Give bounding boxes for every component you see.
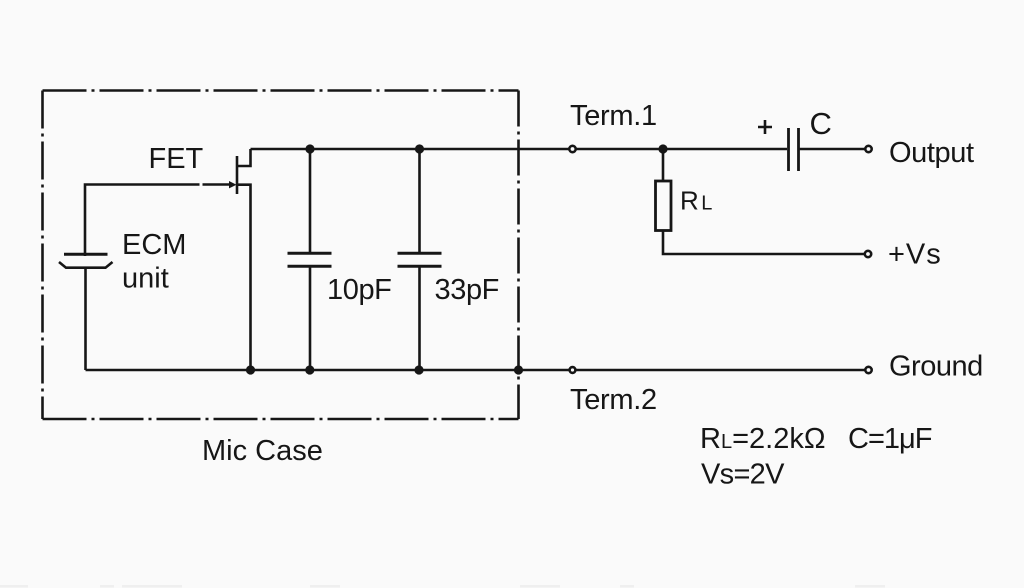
- junction dot: bottom rail / case border: [514, 365, 523, 374]
- svg-text:C: C: [810, 106, 832, 141]
- svg-text:Term.1: Term.1: [570, 100, 657, 132]
- wire: bottom rail (ground rail): [86, 369, 867, 372]
- polarity + mark: [758, 120, 772, 134]
- svg-text:C=1μF: C=1μF: [848, 423, 932, 455]
- svg-text:33pF: 33pF: [435, 274, 500, 306]
- terminal Output (open circle): [865, 146, 871, 152]
- terminal +Vs (open circle): [865, 251, 871, 257]
- mic case enclosure (dash-dot border): [43, 91, 519, 420]
- wire: ECM bottom lead down to bottom rail: [84, 267, 87, 371]
- faint cropped artifacts at bottom edge: [0, 585, 885, 588]
- svg-text:FET: FET: [149, 143, 204, 175]
- electret capsule ECM unit: [59, 254, 113, 267]
- terminal Term.1 (open circle): [569, 146, 575, 152]
- svg-text:+Vs: +Vs: [888, 239, 942, 271]
- junction dot: bottom rail / 10pF: [305, 365, 314, 374]
- capacitor 33pF: [398, 253, 442, 266]
- svg-text:Output: Output: [889, 137, 974, 169]
- svg-text:RL=2.2kΩ: RL=2.2kΩ: [700, 423, 826, 455]
- terminal Ground (open circle): [865, 367, 871, 373]
- svg-text:Ground: Ground: [889, 351, 983, 383]
- transistor FET (JFET symbol): [237, 149, 251, 194]
- wire: output capacitor to Output terminal: [800, 148, 867, 151]
- junction dot: top rail / RL: [658, 144, 667, 153]
- svg-text:Vs=2V: Vs=2V: [701, 459, 785, 491]
- resistor RL: [656, 181, 672, 231]
- wire: top rail from FET drain to output capacitor: [251, 148, 788, 151]
- junction dot: bottom rail / 33pF: [414, 365, 423, 374]
- junction dot: top rail / 10pF: [305, 144, 314, 153]
- svg-text:Mic Case: Mic Case: [202, 435, 323, 467]
- terminal Term.2 (open circle): [570, 367, 576, 373]
- wire: 10pF capacitor branch: [309, 149, 312, 370]
- junction dot: top rail / 33pF: [415, 144, 424, 153]
- wire: RL branch and +Vs line: [663, 149, 865, 254]
- svg-text:10pF: 10pF: [327, 274, 392, 306]
- wire: ECM top lead up and right to FET gate: [85, 185, 230, 257]
- capacitor 10pF: [288, 253, 332, 266]
- svg-text:Term.2: Term.2: [570, 384, 657, 416]
- svg-text:unit: unit: [122, 263, 169, 295]
- junction dot: bottom rail / FET source: [246, 365, 255, 374]
- wire: 33pF capacitor branch: [418, 149, 421, 370]
- wire: FET source down to bottom rail: [237, 185, 251, 370]
- svg-text:ECM: ECM: [122, 229, 186, 261]
- capacitor C (output coupling): [789, 128, 799, 171]
